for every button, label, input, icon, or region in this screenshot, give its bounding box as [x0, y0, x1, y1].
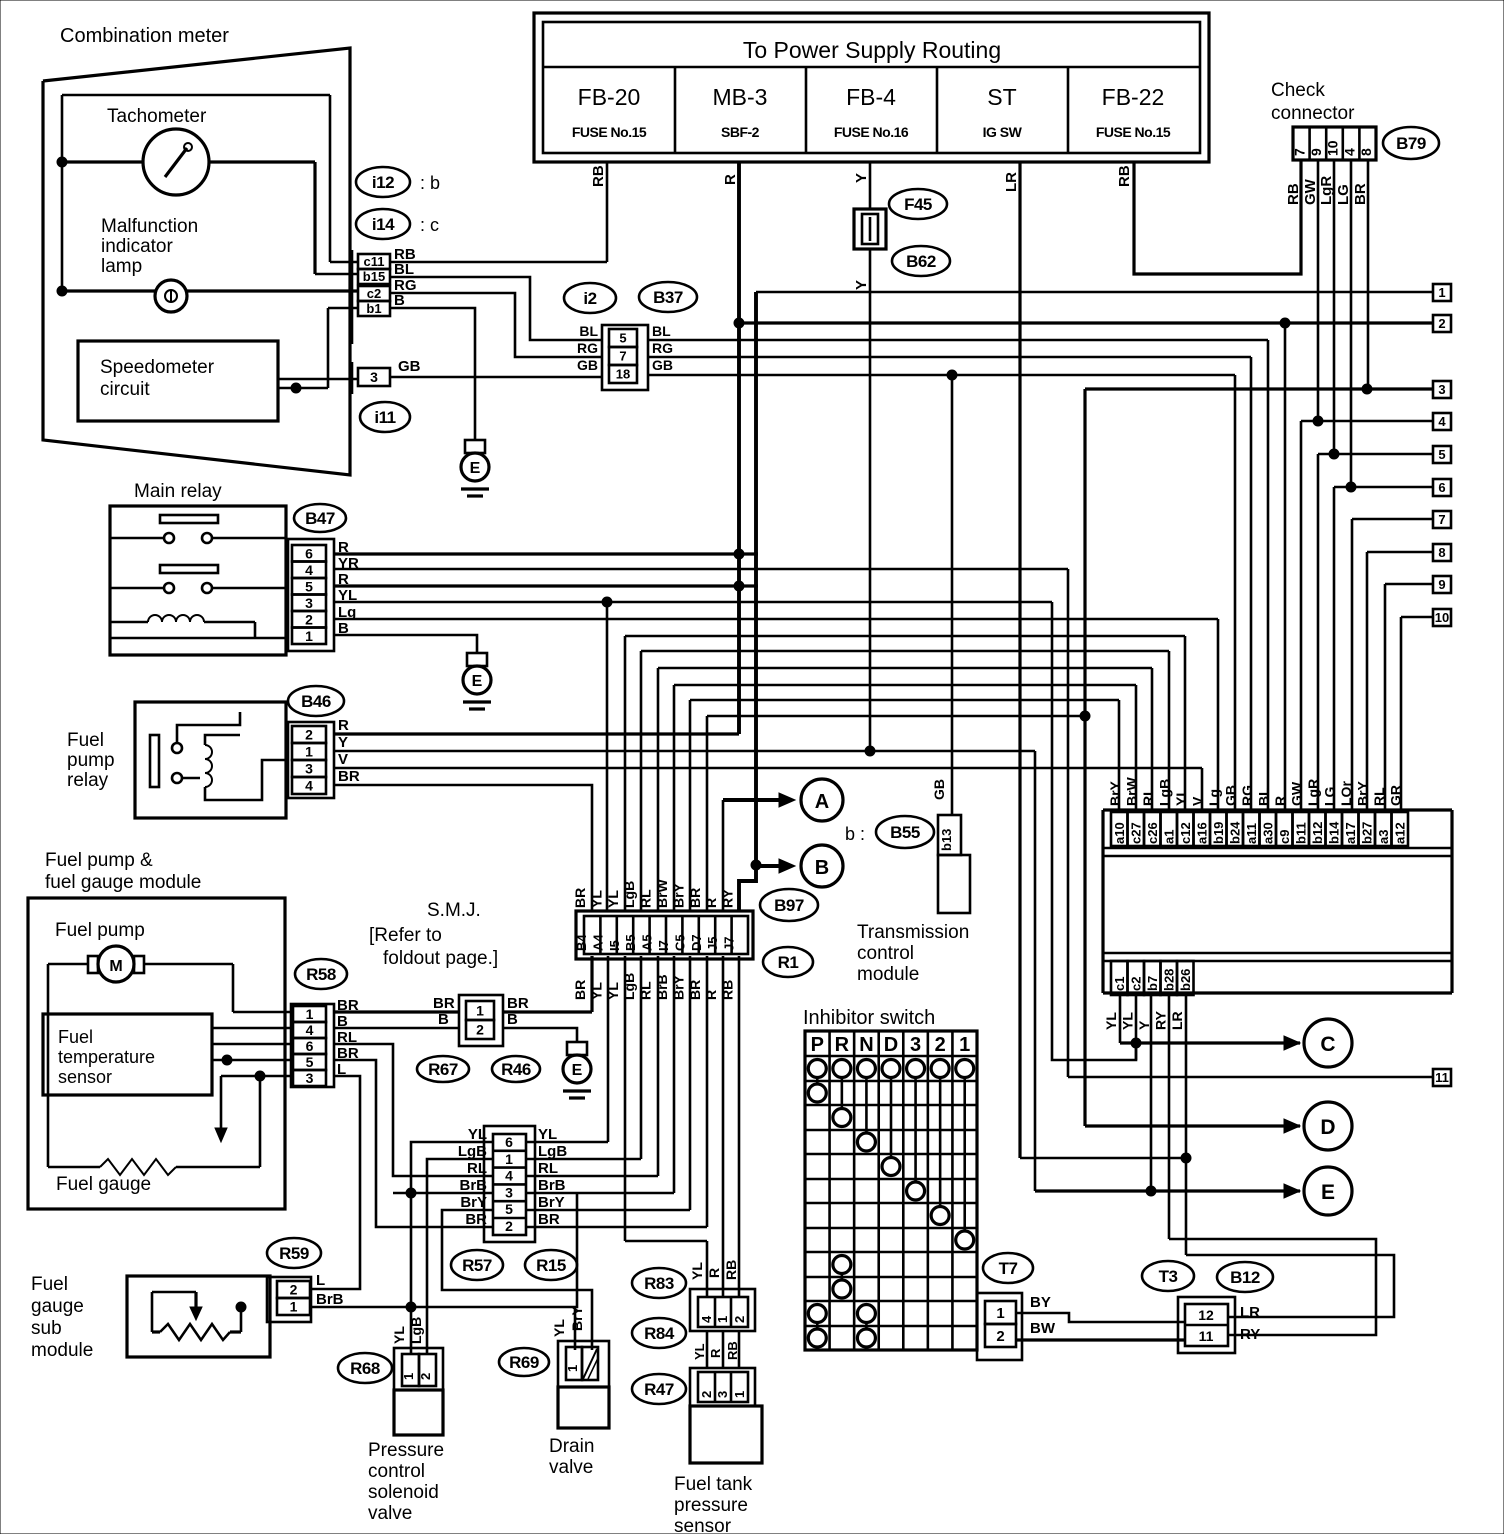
svg-text:V: V — [1190, 796, 1206, 806]
svg-text:2: 2 — [505, 1218, 513, 1234]
svg-text:b15: b15 — [363, 269, 385, 284]
svg-text:7: 7 — [1292, 148, 1308, 156]
svg-text:Y: Y — [1136, 1020, 1152, 1030]
svg-text:indicator: indicator — [101, 236, 173, 257]
svg-text:RY: RY — [1240, 1326, 1260, 1343]
svg-text:BrY: BrY — [1107, 780, 1123, 806]
svg-text:YL: YL — [689, 1262, 705, 1280]
svg-text:YL: YL — [588, 890, 604, 908]
svg-text:LgB: LgB — [621, 973, 637, 1000]
svg-text:FUSE No.15: FUSE No.15 — [572, 124, 647, 140]
svg-text:1: 1 — [305, 744, 313, 760]
svg-text:LgB: LgB — [538, 1143, 567, 1160]
svg-text:3: 3 — [370, 369, 378, 385]
svg-text:c26: c26 — [1145, 822, 1160, 844]
svg-text:10: 10 — [1325, 140, 1341, 156]
svg-text:R: R — [706, 1268, 722, 1278]
svg-text:RL: RL — [1140, 787, 1156, 806]
svg-text:R: R — [835, 1034, 850, 1056]
svg-text:LG: LG — [1322, 786, 1338, 806]
svg-text:A4: A4 — [590, 934, 605, 951]
svg-text:R47: R47 — [644, 1380, 674, 1399]
svg-text:3: 3 — [910, 1034, 921, 1056]
svg-text:circuit: circuit — [100, 379, 150, 400]
svg-text:i2: i2 — [583, 289, 596, 308]
svg-text:BR: BR — [507, 995, 529, 1012]
svg-text:R83: R83 — [644, 1274, 674, 1293]
svg-text:b11: b11 — [1294, 822, 1309, 844]
svg-text:a10: a10 — [1112, 822, 1127, 844]
svg-text:LgB: LgB — [621, 881, 637, 908]
svg-text:b27: b27 — [1360, 822, 1375, 844]
svg-text:B97: B97 — [774, 896, 804, 915]
svg-text:b14: b14 — [1327, 821, 1342, 844]
svg-text:E: E — [470, 460, 481, 477]
svg-text:E: E — [572, 1062, 583, 1079]
svg-text:R59: R59 — [279, 1244, 309, 1263]
svg-text:R69: R69 — [509, 1353, 539, 1372]
svg-text:c11: c11 — [364, 254, 385, 269]
svg-text:6: 6 — [306, 1038, 314, 1054]
svg-text:BrW: BrW — [1124, 776, 1140, 806]
svg-text:b13: b13 — [939, 829, 954, 851]
svg-text:C: C — [1320, 1033, 1335, 1056]
svg-text:R1: R1 — [778, 953, 799, 972]
svg-text:GB: GB — [398, 358, 421, 375]
svg-text:V: V — [338, 751, 348, 768]
svg-text:FUSE No.16: FUSE No.16 — [834, 124, 909, 140]
svg-text:c27: c27 — [1129, 822, 1144, 844]
svg-text:gauge: gauge — [31, 1296, 84, 1317]
svg-text:c12: c12 — [1178, 822, 1193, 844]
svg-text:3: 3 — [715, 1391, 730, 1398]
svg-text:YL: YL — [468, 1126, 487, 1143]
svg-text:connector: connector — [1271, 103, 1355, 124]
svg-text:3: 3 — [505, 1184, 513, 1200]
svg-text:B12: B12 — [1230, 1268, 1260, 1287]
svg-text:Main relay: Main relay — [134, 481, 222, 502]
svg-text:[Refer to: [Refer to — [369, 925, 442, 946]
svg-text:R57: R57 — [462, 1256, 492, 1275]
svg-text:11: 11 — [1199, 1328, 1214, 1344]
svg-text:control: control — [857, 943, 914, 964]
svg-text:D: D — [884, 1034, 898, 1056]
svg-text:2: 2 — [699, 1391, 714, 1398]
svg-text:4: 4 — [305, 562, 313, 578]
svg-text:1: 1 — [306, 1006, 314, 1022]
svg-text:BR: BR — [572, 888, 588, 908]
svg-text:Fuel tank: Fuel tank — [674, 1474, 753, 1495]
svg-text:1: 1 — [565, 1365, 580, 1372]
svg-text:5: 5 — [305, 578, 313, 594]
svg-text:i11: i11 — [374, 408, 395, 427]
svg-text:BR: BR — [538, 1211, 560, 1228]
svg-text:RG: RG — [577, 340, 598, 356]
svg-text:BrB: BrB — [459, 1177, 487, 1194]
svg-text:R15: R15 — [536, 1256, 566, 1275]
svg-text:3: 3 — [305, 761, 313, 777]
svg-text:RG: RG — [652, 340, 673, 356]
svg-text:R: R — [722, 174, 739, 185]
svg-text:B46: B46 — [301, 692, 331, 711]
svg-text:LgB: LgB — [458, 1143, 487, 1160]
svg-text:RB: RB — [1285, 183, 1302, 205]
svg-text:LgB: LgB — [1157, 779, 1173, 806]
svg-text:B: B — [394, 292, 405, 309]
svg-text:Pressure: Pressure — [368, 1440, 444, 1461]
svg-text:LG: LG — [1335, 184, 1352, 205]
svg-text:solenoid: solenoid — [368, 1482, 439, 1503]
svg-text:a16: a16 — [1195, 822, 1210, 844]
svg-text:LOr: LOr — [1338, 781, 1354, 806]
svg-text:A5: A5 — [640, 934, 655, 951]
svg-text:B37: B37 — [653, 288, 683, 307]
svg-text:pressure: pressure — [674, 1495, 748, 1516]
svg-text:lamp: lamp — [101, 256, 142, 277]
svg-text:b :: b : — [845, 824, 865, 844]
svg-text:BrB: BrB — [316, 1291, 344, 1308]
svg-text:b12: b12 — [1310, 822, 1325, 844]
svg-text:D: D — [1320, 1116, 1335, 1139]
svg-text:RB: RB — [725, 1341, 740, 1360]
svg-text:BL: BL — [394, 261, 414, 278]
svg-text:9: 9 — [1308, 148, 1324, 156]
svg-text:B: B — [815, 857, 829, 879]
svg-text:valve: valve — [368, 1503, 412, 1524]
svg-text:J7: J7 — [722, 937, 737, 951]
svg-text:3: 3 — [1438, 382, 1445, 397]
svg-text:2: 2 — [290, 1282, 298, 1298]
svg-text:E: E — [1321, 1181, 1335, 1204]
svg-text:b28: b28 — [1162, 969, 1177, 991]
svg-text:pump: pump — [67, 750, 115, 771]
svg-text:1: 1 — [476, 1003, 484, 1019]
svg-text:BrY: BrY — [569, 1305, 585, 1331]
svg-text:BrB: BrB — [654, 974, 670, 1000]
svg-text:sensor: sensor — [58, 1067, 112, 1087]
svg-text:C5: C5 — [672, 934, 687, 951]
svg-text:7: 7 — [1438, 512, 1445, 527]
svg-text:GB: GB — [652, 357, 673, 373]
svg-text:YL: YL — [1120, 1012, 1136, 1030]
svg-text:: b: : b — [420, 173, 440, 193]
svg-text:GR: GR — [1388, 785, 1404, 806]
svg-text:D7: D7 — [689, 934, 704, 951]
svg-text:IG SW: IG SW — [983, 124, 1023, 140]
svg-text:RY: RY — [720, 888, 736, 908]
svg-text:T3: T3 — [1159, 1267, 1178, 1286]
svg-text:a3: a3 — [1376, 830, 1391, 844]
svg-text:RB: RB — [723, 1260, 739, 1280]
svg-text:Check: Check — [1271, 80, 1325, 101]
svg-text:5: 5 — [306, 1054, 314, 1070]
svg-text:BR: BR — [1352, 183, 1369, 205]
svg-text:5: 5 — [619, 331, 626, 346]
svg-text:BrB: BrB — [538, 1177, 566, 1194]
svg-text:4: 4 — [306, 1022, 314, 1038]
svg-text:RL: RL — [467, 1160, 487, 1177]
svg-text:T7: T7 — [999, 1259, 1018, 1278]
svg-text:Inhibitor switch: Inhibitor switch — [803, 1007, 935, 1029]
svg-text:BrY: BrY — [1355, 780, 1371, 806]
svg-text:5: 5 — [1438, 447, 1445, 462]
svg-text:fuel gauge module: fuel gauge module — [45, 872, 201, 893]
svg-text:1: 1 — [505, 1151, 513, 1167]
svg-text:YL: YL — [1103, 1012, 1119, 1030]
svg-text:3: 3 — [306, 1070, 314, 1086]
svg-text:valve: valve — [549, 1457, 593, 1478]
svg-text:B4: B4 — [574, 934, 589, 951]
svg-text:FB-22: FB-22 — [1102, 84, 1165, 110]
svg-text:Fuel: Fuel — [31, 1274, 68, 1295]
svg-text:N: N — [859, 1034, 873, 1056]
svg-text:18: 18 — [616, 367, 630, 382]
svg-text:A: A — [815, 791, 829, 813]
svg-text:YL: YL — [551, 1319, 567, 1337]
svg-text:2: 2 — [476, 1022, 484, 1038]
svg-text:2: 2 — [935, 1034, 946, 1056]
svg-text:YL: YL — [588, 982, 604, 1000]
svg-text:R: R — [703, 898, 719, 908]
svg-text:i14: i14 — [372, 215, 395, 234]
svg-text:8: 8 — [1438, 545, 1445, 560]
svg-text:1: 1 — [1438, 285, 1445, 300]
svg-text:GW: GW — [1289, 781, 1305, 806]
svg-text:c2: c2 — [367, 286, 381, 301]
svg-text:4: 4 — [305, 778, 313, 794]
svg-text:2: 2 — [996, 1328, 1004, 1345]
svg-text:1: 1 — [959, 1034, 970, 1056]
svg-text:F45: F45 — [904, 195, 932, 214]
svg-text:B62: B62 — [906, 252, 936, 271]
svg-text:4: 4 — [699, 1315, 714, 1323]
svg-text:YL: YL — [391, 1326, 407, 1344]
svg-text:R58: R58 — [306, 965, 336, 984]
svg-text:Speedometer: Speedometer — [100, 357, 215, 378]
svg-text:11: 11 — [1435, 1070, 1449, 1085]
svg-text:temperature: temperature — [58, 1047, 155, 1067]
svg-text:1: 1 — [401, 1373, 416, 1380]
svg-text:Combination meter: Combination meter — [60, 25, 229, 47]
svg-text:Fuel gauge: Fuel gauge — [56, 1174, 151, 1195]
svg-text:R: R — [1272, 796, 1288, 806]
svg-text:c2: c2 — [1129, 977, 1144, 991]
svg-text:R: R — [703, 990, 719, 1000]
svg-text:Fuel pump &: Fuel pump & — [45, 850, 153, 871]
svg-text:R67: R67 — [428, 1060, 458, 1079]
svg-text:BR: BR — [465, 1211, 487, 1228]
svg-text:Lg: Lg — [1206, 789, 1222, 806]
svg-text:b24: b24 — [1228, 821, 1243, 844]
svg-text:Fuel: Fuel — [58, 1027, 93, 1047]
svg-text:1: 1 — [305, 628, 313, 644]
svg-text:R: R — [708, 1348, 723, 1358]
svg-text:foldout page.]: foldout page.] — [383, 948, 498, 969]
svg-text:8: 8 — [1358, 148, 1374, 156]
svg-text:2: 2 — [305, 727, 313, 743]
svg-text:1: 1 — [715, 1316, 730, 1323]
svg-text:BrY: BrY — [460, 1194, 487, 1211]
svg-text:R84: R84 — [644, 1324, 675, 1343]
svg-text:BR: BR — [433, 995, 455, 1012]
svg-text:GB: GB — [931, 779, 947, 800]
svg-text:FB-20: FB-20 — [578, 84, 641, 110]
svg-text:Y: Y — [338, 734, 348, 751]
svg-text:LgR: LgR — [1305, 779, 1321, 806]
svg-text:M: M — [109, 958, 122, 975]
svg-text:Y: Y — [853, 280, 870, 290]
svg-text:Drain: Drain — [549, 1436, 594, 1457]
svg-text:BL: BL — [1256, 787, 1272, 806]
svg-text:B5: B5 — [623, 934, 638, 951]
svg-text:B55: B55 — [890, 823, 920, 842]
svg-text:BL: BL — [652, 323, 671, 339]
svg-text:c1: c1 — [1112, 977, 1127, 991]
svg-text:E: E — [472, 673, 483, 690]
svg-text:GB: GB — [577, 357, 598, 373]
svg-text:FUSE No.15: FUSE No.15 — [1096, 124, 1171, 140]
svg-text:RY: RY — [1153, 1010, 1169, 1030]
svg-text:a1: a1 — [1162, 830, 1177, 844]
svg-text:BrY: BrY — [538, 1194, 565, 1211]
svg-text:relay: relay — [67, 770, 109, 791]
svg-text:2: 2 — [305, 611, 313, 627]
svg-text:J5: J5 — [705, 937, 720, 951]
svg-text:RB: RB — [590, 165, 607, 187]
svg-text:Fuel pump: Fuel pump — [55, 920, 145, 941]
svg-text:6: 6 — [305, 545, 313, 561]
svg-text:12: 12 — [1198, 1307, 1214, 1323]
svg-text:I7: I7 — [656, 940, 671, 951]
svg-text:LR: LR — [1003, 172, 1020, 192]
svg-text:i12: i12 — [372, 173, 394, 192]
svg-text:RL: RL — [538, 1160, 558, 1177]
svg-text:RG: RG — [1239, 785, 1255, 806]
svg-text:BW: BW — [1030, 1320, 1056, 1337]
svg-text:control: control — [368, 1461, 425, 1482]
svg-text:BR: BR — [572, 980, 588, 1000]
svg-text:BY: BY — [1030, 1294, 1051, 1311]
svg-text:a30: a30 — [1261, 822, 1276, 844]
svg-text:b1: b1 — [366, 301, 381, 316]
svg-text:LgB: LgB — [408, 1317, 424, 1344]
svg-text:FB-4: FB-4 — [846, 84, 896, 110]
svg-text:Tachometer: Tachometer — [107, 106, 207, 127]
svg-text:module: module — [31, 1340, 93, 1361]
svg-text:R68: R68 — [350, 1359, 380, 1378]
svg-text:c9: c9 — [1277, 830, 1292, 844]
svg-text:1: 1 — [732, 1391, 747, 1398]
svg-text:P: P — [811, 1034, 824, 1056]
svg-text:LR: LR — [1169, 1011, 1185, 1030]
svg-text:GB: GB — [1223, 785, 1239, 806]
svg-text:S.M.J.: S.M.J. — [427, 900, 481, 921]
svg-text:I5: I5 — [607, 940, 622, 951]
svg-text:6: 6 — [505, 1134, 513, 1150]
svg-text:b26: b26 — [1178, 969, 1193, 991]
svg-text:4: 4 — [505, 1168, 513, 1184]
svg-text:sensor: sensor — [674, 1516, 732, 1534]
svg-text:YL: YL — [692, 1343, 707, 1360]
svg-text:LR: LR — [1240, 1304, 1260, 1321]
svg-text:: c: : c — [420, 215, 439, 235]
svg-text:BL: BL — [579, 323, 598, 339]
svg-text:YL: YL — [605, 890, 621, 908]
svg-text:a11: a11 — [1244, 823, 1259, 844]
svg-text:Transmission: Transmission — [857, 922, 969, 943]
svg-text:4: 4 — [1438, 414, 1446, 429]
svg-text:ST: ST — [987, 84, 1016, 110]
svg-text:3: 3 — [305, 595, 313, 611]
svg-text:b7: b7 — [1145, 976, 1160, 991]
svg-text:To Power Supply Routing: To Power Supply Routing — [743, 37, 1001, 63]
svg-text:Y: Y — [853, 173, 870, 183]
svg-text:B47: B47 — [305, 509, 335, 528]
svg-text:YL: YL — [1173, 788, 1189, 806]
svg-text:Fuel: Fuel — [67, 730, 104, 751]
svg-text:L: L — [316, 1272, 325, 1289]
svg-text:2: 2 — [1438, 316, 1445, 331]
svg-text:2: 2 — [732, 1316, 747, 1323]
svg-text:1: 1 — [290, 1299, 298, 1315]
svg-text:1: 1 — [996, 1305, 1004, 1322]
svg-text:LgR: LgR — [1318, 176, 1335, 205]
svg-text:RB: RB — [1116, 165, 1133, 187]
svg-text:9: 9 — [1438, 577, 1445, 592]
svg-text:RL: RL — [1371, 787, 1387, 806]
svg-text:5: 5 — [505, 1201, 513, 1217]
svg-text:sub: sub — [31, 1318, 62, 1339]
svg-text:BR: BR — [338, 768, 360, 785]
svg-text:6: 6 — [1438, 480, 1445, 495]
svg-text:module: module — [857, 964, 919, 985]
svg-text:Malfunction: Malfunction — [101, 216, 198, 237]
svg-text:b19: b19 — [1211, 822, 1226, 844]
svg-text:YL: YL — [538, 1126, 557, 1143]
svg-text:GW: GW — [1302, 178, 1319, 205]
svg-text:a12: a12 — [1393, 822, 1408, 844]
svg-text:SBF-2: SBF-2 — [721, 124, 760, 140]
svg-text:BrW: BrW — [654, 878, 670, 908]
svg-text:4: 4 — [1341, 148, 1357, 156]
svg-text:7: 7 — [619, 349, 626, 364]
svg-text:a17: a17 — [1343, 822, 1358, 844]
svg-text:MB-3: MB-3 — [713, 84, 768, 110]
svg-text:10: 10 — [1435, 610, 1449, 625]
svg-text:R46: R46 — [501, 1060, 531, 1079]
svg-text:B79: B79 — [1396, 134, 1426, 153]
svg-text:2: 2 — [418, 1373, 433, 1380]
svg-text:R: R — [338, 717, 349, 734]
